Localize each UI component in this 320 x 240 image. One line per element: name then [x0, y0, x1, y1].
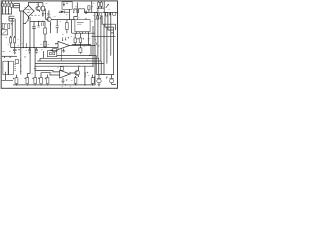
- resistor R15: [66, 20, 69, 34]
- capacitor C14: [34, 67, 36, 68]
- wire: [42, 11, 44, 17]
- wire: [92, 26, 94, 66]
- resistor R8: [14, 37, 16, 48]
- wire rail: [35, 65, 93, 67]
- resistor R21: [32, 78, 36, 84]
- label marks: [94, 76, 95, 77]
- resistor R5: [2, 23, 6, 28]
- node AG: [75, 84, 76, 85]
- node AF: [65, 84, 66, 85]
- dashed marks: [31, 14, 40, 16]
- node P: [76, 33, 77, 34]
- resistor R12: [98, 1, 100, 8]
- ground: [98, 85, 101, 87]
- node AB: [27, 84, 28, 85]
- node H: [33, 47, 34, 48]
- wire: [88, 33, 90, 44]
- wire with bumps: [73, 9, 97, 13]
- node AP: [23, 47, 24, 48]
- pin stubs U1: [77, 18, 89, 33]
- transistor Q2: [113, 12, 116, 15]
- node A: [8, 13, 9, 14]
- node D: [14, 36, 15, 37]
- crystal box B2: [47, 51, 56, 57]
- node K: [86, 12, 87, 13]
- node AD: [40, 84, 41, 85]
- wire: [92, 36, 116, 38]
- wire: [90, 45, 92, 56]
- wire: [22, 11, 24, 48]
- wire bus vertical: [103, 24, 105, 74]
- capacitor C13 electrolytic: [109, 75, 116, 85]
- node S: [103, 36, 104, 37]
- wire main mid rail: [11, 47, 58, 49]
- capacitor C2: [42, 14, 44, 15]
- wire: [2, 72, 13, 81]
- label marks: [88, 38, 91, 40]
- node Z: [78, 66, 79, 67]
- wire: [29, 17, 31, 48]
- capacitor C8: [109, 12, 110, 15]
- wire: [72, 44, 91, 46]
- tick marks: [97, 13, 101, 15]
- wire bus vertical: [97, 8, 99, 58]
- node AQ: [59, 12, 60, 13]
- label marks extra: [6, 17, 108, 86]
- wire: [68, 9, 70, 19]
- ground: [3, 51, 11, 53]
- wire: [28, 17, 30, 20]
- node L: [98, 8, 99, 9]
- node Q: [82, 33, 83, 34]
- label marks: [66, 79, 67, 80]
- op-amp U3: [58, 37, 70, 50]
- wire: [2, 13, 13, 15]
- wire: [9, 16, 14, 21]
- node AN: [94, 19, 95, 20]
- node M: [101, 8, 102, 9]
- wire: [35, 71, 60, 72]
- node F: [42, 21, 43, 22]
- wire: [14, 3, 20, 5]
- node AH: [84, 84, 85, 85]
- node X: [89, 55, 90, 56]
- wire: [55, 43, 58, 45]
- wire: [13, 4, 15, 8]
- wire: [94, 12, 96, 36]
- wire: [34, 48, 36, 78]
- node C: [10, 36, 11, 37]
- wire right vertical: [113, 27, 115, 75]
- wire: [51, 19, 75, 21]
- wire top right rail: [94, 11, 117, 13]
- resistor R19: [13, 75, 18, 85]
- corner bus wire: [105, 12, 114, 27]
- node R: [88, 33, 89, 34]
- box component T1: [2, 30, 8, 35]
- ground: [62, 49, 66, 61]
- wire: [27, 48, 30, 78]
- capacitor C4: [38, 21, 40, 27]
- node Y: [92, 66, 93, 67]
- transformer box T3: [9, 61, 14, 74]
- node O: [104, 12, 105, 13]
- wire: [97, 7, 105, 9]
- wire: [44, 9, 45, 20]
- resistor R1: [2, 1, 4, 14]
- corner bus wire: [102, 16, 115, 31]
- wire rail: [57, 55, 96, 57]
- capacitor C7: [85, 11, 86, 14]
- wire: [74, 2, 78, 19]
- resistor R23: [45, 75, 49, 84]
- capacitor C10: [62, 78, 65, 84]
- resistor R16: [74, 33, 79, 44]
- wire: [103, 1, 105, 12]
- node AA: [16, 84, 17, 85]
- wire: [14, 19, 16, 37]
- capacitor C9: [56, 20, 59, 34]
- resistor R4: [11, 1, 13, 14]
- node AC: [35, 84, 36, 85]
- wire: [41, 73, 60, 75]
- node AK: [20, 65, 21, 66]
- resistor R18: [79, 45, 82, 54]
- node N: [96, 12, 97, 13]
- wire rail: [40, 57, 99, 59]
- wire: [14, 5, 20, 7]
- diode D6: [106, 4, 109, 8]
- node G: [29, 47, 30, 48]
- resistor R27: [97, 16, 99, 20]
- resistor R14: [106, 13, 108, 16]
- resistor R3: [8, 1, 9, 14]
- transformer box T2: [3, 61, 8, 74]
- wire: [29, 2, 43, 5]
- wire bottom rail: [13, 84, 96, 86]
- resistor R11: [88, 6, 93, 13]
- resistor R13: [100, 1, 102, 8]
- label marks: [24, 56, 26, 57]
- node T: [75, 44, 76, 45]
- wire: [91, 1, 93, 12]
- input box B1: [51, 49, 59, 52]
- wire op-amp output: [70, 45, 95, 47]
- corner wire: [95, 56, 97, 75]
- diode D5: [61, 11, 64, 14]
- bridge rectifier D1: [22, 5, 34, 17]
- corner wire: [98, 58, 100, 74]
- label marks: [47, 14, 50, 15]
- wire bottom right rail: [97, 74, 114, 76]
- resistor R9: [41, 3, 44, 11]
- capacitor C12 electrolytic: [97, 75, 101, 85]
- transistor Q4: [45, 10, 51, 33]
- capacitor C1: [13, 48, 20, 55]
- resistor R6: [8, 23, 12, 28]
- diode D2: [23, 17, 29, 25]
- wire: [19, 4, 21, 11]
- transistor Q3: [75, 67, 80, 77]
- resistor R26: [44, 41, 47, 47]
- node AO: [100, 18, 101, 19]
- small box B4: [15, 60, 18, 64]
- node I: [44, 47, 45, 48]
- corner bus wire: [111, 12, 114, 55]
- tick: [95, 43, 97, 45]
- corner bus wire: [108, 12, 114, 30]
- node B: [12, 18, 13, 19]
- label marks scattered: [8, 3, 110, 81]
- capacitor C5: [28, 48, 31, 54]
- capacitor C3: [32, 21, 36, 47]
- zener D4: [63, 3, 68, 7]
- capacitor C6: [35, 48, 38, 54]
- node V: [88, 44, 89, 45]
- wire: [30, 20, 45, 22]
- resistor R20: [24, 78, 28, 84]
- corner wire: [100, 61, 102, 75]
- wire: [70, 72, 76, 73]
- resistor R7: [10, 37, 12, 48]
- capacitor C11: [84, 66, 88, 85]
- wire: [71, 20, 73, 34]
- wire IC bottom rail: [72, 32, 95, 34]
- wire bus vertical: [106, 27, 108, 64]
- transistor Q1: [36, 2, 41, 12]
- IC U1: [75, 20, 90, 32]
- switch S1: [42, 22, 44, 26]
- wire: [11, 19, 13, 37]
- small box B3: [60, 67, 63, 71]
- wire: [40, 51, 43, 61]
- node AI: [92, 84, 93, 85]
- regulator box U2: [62, 2, 72, 10]
- diode D7: [100, 16, 103, 19]
- wire rail: [37, 60, 101, 62]
- wire: [25, 43, 27, 48]
- wire: [4, 56, 10, 58]
- wire: [2, 55, 17, 57]
- node AR: [94, 39, 95, 40]
- node AL: [20, 71, 21, 72]
- resistor R17: [79, 33, 84, 44]
- node J: [26, 47, 27, 48]
- resistor R24: [74, 76, 77, 85]
- resistor R2: [5, 1, 7, 14]
- winding ticks: [14, 65, 16, 71]
- resistor R22: [38, 73, 42, 84]
- node AM: [45, 13, 46, 14]
- wire: [20, 56, 22, 74]
- node U: [80, 44, 81, 45]
- wire: [59, 11, 70, 13]
- wire rail: [35, 63, 104, 65]
- wire: [20, 11, 22, 56]
- wire bus vertical: [94, 37, 96, 85]
- label marks: [106, 77, 108, 79]
- wire: [14, 7, 20, 9]
- node AE: [47, 84, 48, 85]
- node E: [38, 21, 39, 22]
- wire bus vertical: [100, 15, 102, 61]
- label marks: [2, 10, 9, 12]
- op-amp U4: [60, 70, 70, 78]
- border frame: [1, 1, 117, 88]
- wire: [92, 83, 94, 85]
- node W: [94, 45, 95, 46]
- resistor R25: [91, 75, 94, 84]
- label marks: [2, 9, 9, 11]
- node AJ: [20, 59, 21, 60]
- wire: [19, 10, 23, 12]
- resistor R10: [44, 21, 47, 47]
